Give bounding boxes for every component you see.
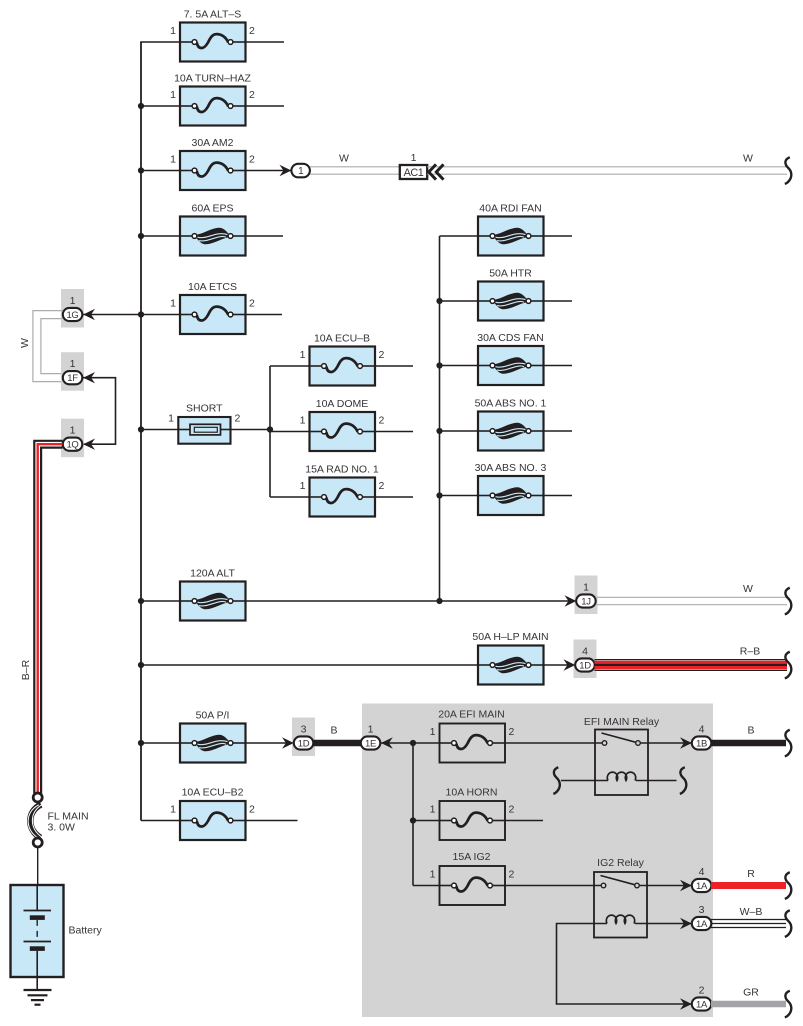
- fuse 10A DOME: [310, 412, 376, 451]
- fuse 50A H-LP MAIN: [478, 646, 544, 685]
- wire fuse ETCS output: [246, 314, 283, 316]
- svg-text:10A ECU–B: 10A ECU–B: [314, 333, 370, 345]
- junction at CDS FAN: [436, 362, 442, 368]
- wire IG2 input: [413, 885, 440, 887]
- svg-text:B: B: [330, 725, 337, 737]
- wire RAD NO. 1 output: [375, 496, 413, 498]
- wire SHORT output: [231, 429, 271, 431]
- wire W-B from 1A to right edge (white-black wire): [711, 920, 786, 928]
- svg-text:2: 2: [509, 869, 515, 881]
- connector 1J: [576, 594, 596, 607]
- svg-text:1: 1: [170, 804, 176, 816]
- fuse 30A CDS FAN: [478, 346, 544, 385]
- junction on bus at ETCS / 1G: [138, 311, 144, 317]
- connector 1E: [361, 736, 381, 749]
- wire break at EFI coil left: [553, 767, 560, 794]
- svg-text:1: 1: [298, 166, 304, 177]
- svg-text:1: 1: [170, 154, 176, 166]
- connector 1G: [63, 308, 83, 321]
- svg-text:1Q: 1Q: [66, 440, 78, 451]
- junction connector AC1: [400, 165, 427, 179]
- svg-text:B–R: B–R: [20, 659, 32, 680]
- fuse 20A EFI MAIN: [440, 724, 506, 763]
- svg-text:10A DOME: 10A DOME: [316, 398, 369, 410]
- svg-text:7. 5A ALT–S: 7. 5A ALT–S: [184, 9, 242, 21]
- svg-text:3: 3: [699, 904, 705, 916]
- wire B-R from 1Q down to fusible link (black-red wire): [34, 441, 62, 794]
- arrow into connector 1J: [565, 595, 577, 606]
- svg-text:30A AM2: 30A AM2: [191, 137, 233, 149]
- wire RDI FAN output: [544, 235, 573, 237]
- wire ABS NO. 3 output: [544, 495, 573, 497]
- fuse 10A ECU-B2: [180, 801, 246, 840]
- arrow into connector 1G: [83, 309, 95, 320]
- svg-text:1: 1: [70, 295, 76, 307]
- fuse 120A ALT: [180, 582, 246, 621]
- wire fuse TURN-HAZ output: [246, 105, 285, 107]
- svg-text:W–B: W–B: [740, 906, 763, 918]
- connector 1F: [63, 371, 83, 384]
- connector 1D: [575, 658, 595, 671]
- wire EFI MAIN output to relay: [505, 742, 595, 744]
- svg-text:2: 2: [249, 25, 255, 37]
- junction on bus at EPS: [138, 233, 144, 239]
- battery: [11, 885, 64, 990]
- wire GR thick from 1A to right edge (gray wire): [711, 1001, 786, 1008]
- svg-text:1D: 1D: [579, 660, 591, 671]
- svg-text:1: 1: [430, 869, 436, 881]
- wire fuse ALT-S output: [246, 41, 285, 43]
- svg-text:120A ALT: 120A ALT: [190, 568, 235, 580]
- svg-text:1: 1: [300, 415, 306, 427]
- svg-text:GR: GR: [743, 987, 759, 999]
- wire ABS NO. 1 output: [544, 430, 573, 432]
- wire W hollow between 1G and 1F (white wire): [33, 311, 63, 382]
- wire gray-box feed vertical: [412, 743, 414, 886]
- svg-text:1: 1: [170, 89, 176, 101]
- arrow into connector 1A pin3: [680, 918, 692, 929]
- wire W from connector 1 to AC1 (white wire): [310, 167, 400, 174]
- tag connector 1F: [61, 352, 84, 391]
- svg-text:1F: 1F: [67, 373, 78, 384]
- svg-text:10A ETCS: 10A ETCS: [188, 281, 237, 293]
- wire break at EFI coil right: [680, 767, 687, 794]
- wire break right edge ALT row: [785, 588, 792, 615]
- wire W from 1J to right edge (white wire): [596, 597, 788, 604]
- wire HTR input: [440, 300, 479, 302]
- fuse 50A P/I: [180, 724, 246, 763]
- wire ABS NO. 3 input: [440, 495, 479, 497]
- ground: [24, 990, 52, 1005]
- svg-text:2: 2: [509, 804, 515, 816]
- wire B thick from 1B to right edge (black wire): [711, 740, 786, 747]
- wire fuse AM2 output to connector: [246, 170, 292, 172]
- junction at ABS NO. 3: [436, 492, 442, 498]
- wire to RAD input: [270, 496, 310, 498]
- arrow into connector 1F: [83, 372, 95, 383]
- wire HORN input: [413, 820, 440, 822]
- fuse 10A ETCS: [180, 295, 246, 334]
- svg-text:50A P/I: 50A P/I: [196, 710, 230, 722]
- fuse 7.5A ALT-S: [180, 23, 246, 62]
- svg-text:2: 2: [249, 89, 255, 101]
- svg-text:60A EPS: 60A EPS: [191, 203, 233, 215]
- junction on bus at ALT: [138, 598, 144, 604]
- wire HTR output: [544, 300, 573, 302]
- svg-text:15A RAD NO. 1: 15A RAD NO. 1: [305, 464, 379, 476]
- junction at HORN feed: [410, 817, 416, 823]
- svg-text:10A ECU–B2: 10A ECU–B2: [182, 787, 244, 799]
- svg-text:1: 1: [300, 480, 306, 492]
- svg-text:1: 1: [168, 413, 174, 425]
- svg-text:2: 2: [379, 415, 385, 427]
- wire from junction to 1E: [381, 742, 440, 744]
- wire break right edge AM2 row: [785, 157, 792, 184]
- svg-text:B: B: [747, 725, 754, 737]
- wire CDS FAN output: [544, 365, 573, 367]
- wire P/I output to 1D: [246, 742, 294, 744]
- junction at HTR: [436, 298, 442, 304]
- tag connector 1D pin3: [292, 718, 315, 757]
- wire break right edge W-B row: [785, 910, 792, 937]
- wire IG2 coil right lead to 1A pin3: [647, 923, 692, 925]
- junction on bus at SHORT: [138, 426, 144, 432]
- svg-text:1A: 1A: [696, 999, 708, 1010]
- arrow into connector 1B: [680, 737, 692, 748]
- svg-text:3: 3: [301, 723, 307, 735]
- wire H-LP MAIN input: [141, 664, 478, 666]
- fuse 50A ABS NO. 1: [478, 412, 544, 451]
- svg-text:EFI MAIN Relay: EFI MAIN Relay: [584, 716, 660, 728]
- wire break right edge H-LP row: [785, 652, 792, 679]
- wire fuse EPS output: [246, 235, 284, 237]
- fuse 10A HORN: [440, 801, 506, 840]
- wire H-LP MAIN output to 1D: [544, 664, 576, 666]
- svg-text:1: 1: [583, 581, 589, 593]
- wire to DOME input: [270, 431, 310, 433]
- svg-text:3. 0W: 3. 0W: [48, 822, 76, 834]
- arrow into connector 1A pin2: [680, 998, 692, 1009]
- wire DOME output: [375, 431, 413, 433]
- svg-text:2: 2: [699, 984, 705, 996]
- svg-text:50A ABS NO. 1: 50A ABS NO. 1: [475, 398, 547, 410]
- junction at SHORT branch: [267, 426, 273, 432]
- wire break right edge R row: [785, 872, 792, 899]
- wire fuse ALT input: [141, 600, 180, 602]
- svg-text:1: 1: [368, 723, 374, 735]
- wire B thick from 1D to 1E (black wire): [313, 740, 361, 747]
- svg-text:1: 1: [170, 298, 176, 310]
- relay EFI MAIN Relay: [595, 730, 648, 796]
- svg-text:Battery: Battery: [69, 925, 103, 937]
- fuse 50A HTR: [478, 282, 544, 321]
- junction on bus at P/I: [138, 740, 144, 746]
- tag connector 1J: [575, 576, 598, 615]
- svg-text:1E: 1E: [365, 738, 376, 749]
- svg-text:1J: 1J: [581, 596, 591, 607]
- svg-text:1: 1: [70, 425, 76, 437]
- svg-text:1: 1: [300, 349, 306, 361]
- fuse 30A AM2: [180, 151, 246, 190]
- node circle bottom of FL MAIN: [33, 838, 42, 847]
- node circle top of FL MAIN: [33, 793, 42, 802]
- wire ABS NO. 1 input: [440, 430, 479, 432]
- svg-text:W: W: [743, 153, 753, 165]
- svg-text:1: 1: [70, 358, 76, 370]
- arrow into connector 1: [280, 165, 292, 176]
- wire fuse ALT-S input from bus: [140, 41, 180, 43]
- junction at ABS NO. 1: [436, 428, 442, 434]
- svg-text:2: 2: [379, 480, 385, 492]
- connector 1A pin2: [692, 997, 712, 1010]
- tag connector 1D pin4: [574, 640, 597, 679]
- wire fuse AM2 input: [141, 170, 180, 172]
- svg-text:2: 2: [235, 413, 241, 425]
- wire P/I input: [141, 742, 180, 744]
- junction ALT output to right column: [436, 598, 442, 604]
- tag connector 1Q: [61, 419, 84, 458]
- svg-text:W: W: [19, 338, 31, 348]
- arrow into connector 1E: [381, 737, 393, 748]
- svg-text:AC1: AC1: [404, 167, 424, 179]
- wire ECU-B output: [375, 365, 413, 367]
- svg-text:W: W: [339, 153, 349, 165]
- main power bus wire (vertical): [140, 42, 142, 821]
- connector 1B: [692, 736, 712, 749]
- svg-text:2: 2: [249, 804, 255, 816]
- arrow into connector 1Q: [83, 439, 95, 450]
- wire right-column feed vertical from ALT output: [439, 236, 441, 601]
- fuse 30A ABS NO. 3: [478, 476, 544, 515]
- arrow into connector 1D pin3: [282, 737, 294, 748]
- svg-text:2: 2: [379, 349, 385, 361]
- wire fuse EPS input: [141, 235, 180, 237]
- wire from bus to connector 1G: [83, 314, 141, 316]
- wire to ECU-B input: [270, 365, 310, 367]
- wire R thick from 1A to right edge (red wire): [711, 882, 786, 889]
- svg-text:20A EFI MAIN: 20A EFI MAIN: [438, 709, 505, 721]
- fuse 10A TURN-HAZ: [180, 87, 246, 126]
- svg-text:1: 1: [430, 804, 436, 816]
- arrow into connector 1A pin4: [680, 880, 692, 891]
- svg-text:SHORT: SHORT: [186, 403, 223, 415]
- svg-text:4: 4: [699, 723, 705, 735]
- svg-text:W: W: [743, 583, 753, 595]
- svg-text:15A IG2: 15A IG2: [453, 851, 491, 863]
- wire HORN output: [505, 820, 543, 822]
- junction on bus at H-LP MAIN: [138, 662, 144, 668]
- wire ALT output to 1J: [246, 600, 577, 602]
- connector 1D pin3: [294, 736, 314, 749]
- wire ECU-B2 output: [246, 820, 298, 822]
- svg-text:50A H–LP MAIN: 50A H–LP MAIN: [472, 631, 548, 643]
- double chevron pass-through at AC1: [429, 164, 444, 179]
- junction inside relay box at EFI feed: [410, 740, 416, 746]
- tag connector 1G: [61, 289, 84, 328]
- svg-text:10A TURN–HAZ: 10A TURN–HAZ: [174, 73, 251, 85]
- fuse SHORT (fusible link): [178, 417, 230, 444]
- svg-text:10A HORN: 10A HORN: [446, 787, 498, 799]
- svg-text:4: 4: [699, 866, 705, 878]
- wire break right edge EFI row: [785, 730, 792, 757]
- svg-text:1: 1: [411, 152, 417, 164]
- svg-text:30A ABS NO. 3: 30A ABS NO. 3: [475, 462, 547, 474]
- junction on bus at TURN-HAZ: [138, 103, 144, 109]
- wire from FL MAIN to battery: [37, 847, 39, 885]
- arrow into connector 1D: [564, 659, 576, 670]
- wire IG2 output to relay: [505, 885, 594, 887]
- svg-text:1A: 1A: [696, 881, 708, 892]
- fuse 15A RAD NO. 1: [310, 478, 376, 517]
- wire from 1F to 1Q: [83, 378, 116, 445]
- svg-text:40A RDI FAN: 40A RDI FAN: [479, 203, 541, 215]
- svg-text:2: 2: [249, 298, 255, 310]
- svg-text:50A HTR: 50A HTR: [489, 268, 532, 280]
- wire R-B from 1D to right edge (red-black wire): [595, 660, 788, 671]
- wire IG2 coil left lead down to 1A pin2: [557, 924, 692, 1005]
- connector 1A pin4: [692, 879, 712, 892]
- connector 1 (round): [291, 164, 310, 178]
- wire RDI FAN input: [440, 235, 479, 237]
- connector 1A pin3: [692, 917, 712, 930]
- relay IG2 Relay: [594, 872, 647, 938]
- wire EFI relay coil lead left: [561, 780, 595, 782]
- svg-text:1A: 1A: [696, 919, 708, 930]
- fuse 40A RDI FAN: [478, 217, 544, 256]
- svg-text:1: 1: [170, 25, 176, 37]
- wire EFI relay coil lead right: [648, 780, 677, 782]
- svg-text:30A CDS FAN: 30A CDS FAN: [477, 332, 544, 344]
- svg-text:1: 1: [430, 726, 436, 738]
- fusible link FL MAIN 3. 0W: [28, 804, 43, 838]
- wire ECU-B2 input from bus: [141, 820, 180, 822]
- wire branch vertical for ECU-B/DOME/RAD: [269, 366, 271, 497]
- svg-text:R–B: R–B: [740, 646, 760, 658]
- wire break right edge GR row: [785, 991, 792, 1018]
- svg-text:1D: 1D: [298, 738, 310, 749]
- fuse 15A IG2: [440, 866, 506, 905]
- svg-text:2: 2: [509, 726, 515, 738]
- svg-text:1B: 1B: [696, 738, 707, 749]
- wire fuse ETCS input: [141, 314, 180, 316]
- wire SHORT input: [141, 429, 178, 431]
- wire W from AC1 to right edge (white wire): [427, 167, 787, 174]
- wire IG2 relay output to 1A pin4: [647, 885, 692, 887]
- connector 1Q: [63, 438, 83, 451]
- gray engine-room relay-box zone: [362, 704, 713, 1018]
- svg-text:4: 4: [582, 645, 588, 657]
- svg-text:2: 2: [249, 154, 255, 166]
- fuse 60A EPS: [180, 217, 246, 256]
- wire fuse TURN-HAZ input: [141, 105, 180, 107]
- wire CDS FAN input: [440, 365, 479, 367]
- label FL MAIN 3. 0W: [48, 811, 89, 834]
- svg-text:R: R: [747, 868, 755, 880]
- junction on bus at AM2: [138, 167, 144, 173]
- fuse 10A ECU-B: [310, 347, 376, 386]
- wire EFI relay output to 1B: [648, 742, 692, 744]
- svg-text:1G: 1G: [66, 310, 78, 321]
- svg-text:IG2 Relay: IG2 Relay: [597, 857, 644, 869]
